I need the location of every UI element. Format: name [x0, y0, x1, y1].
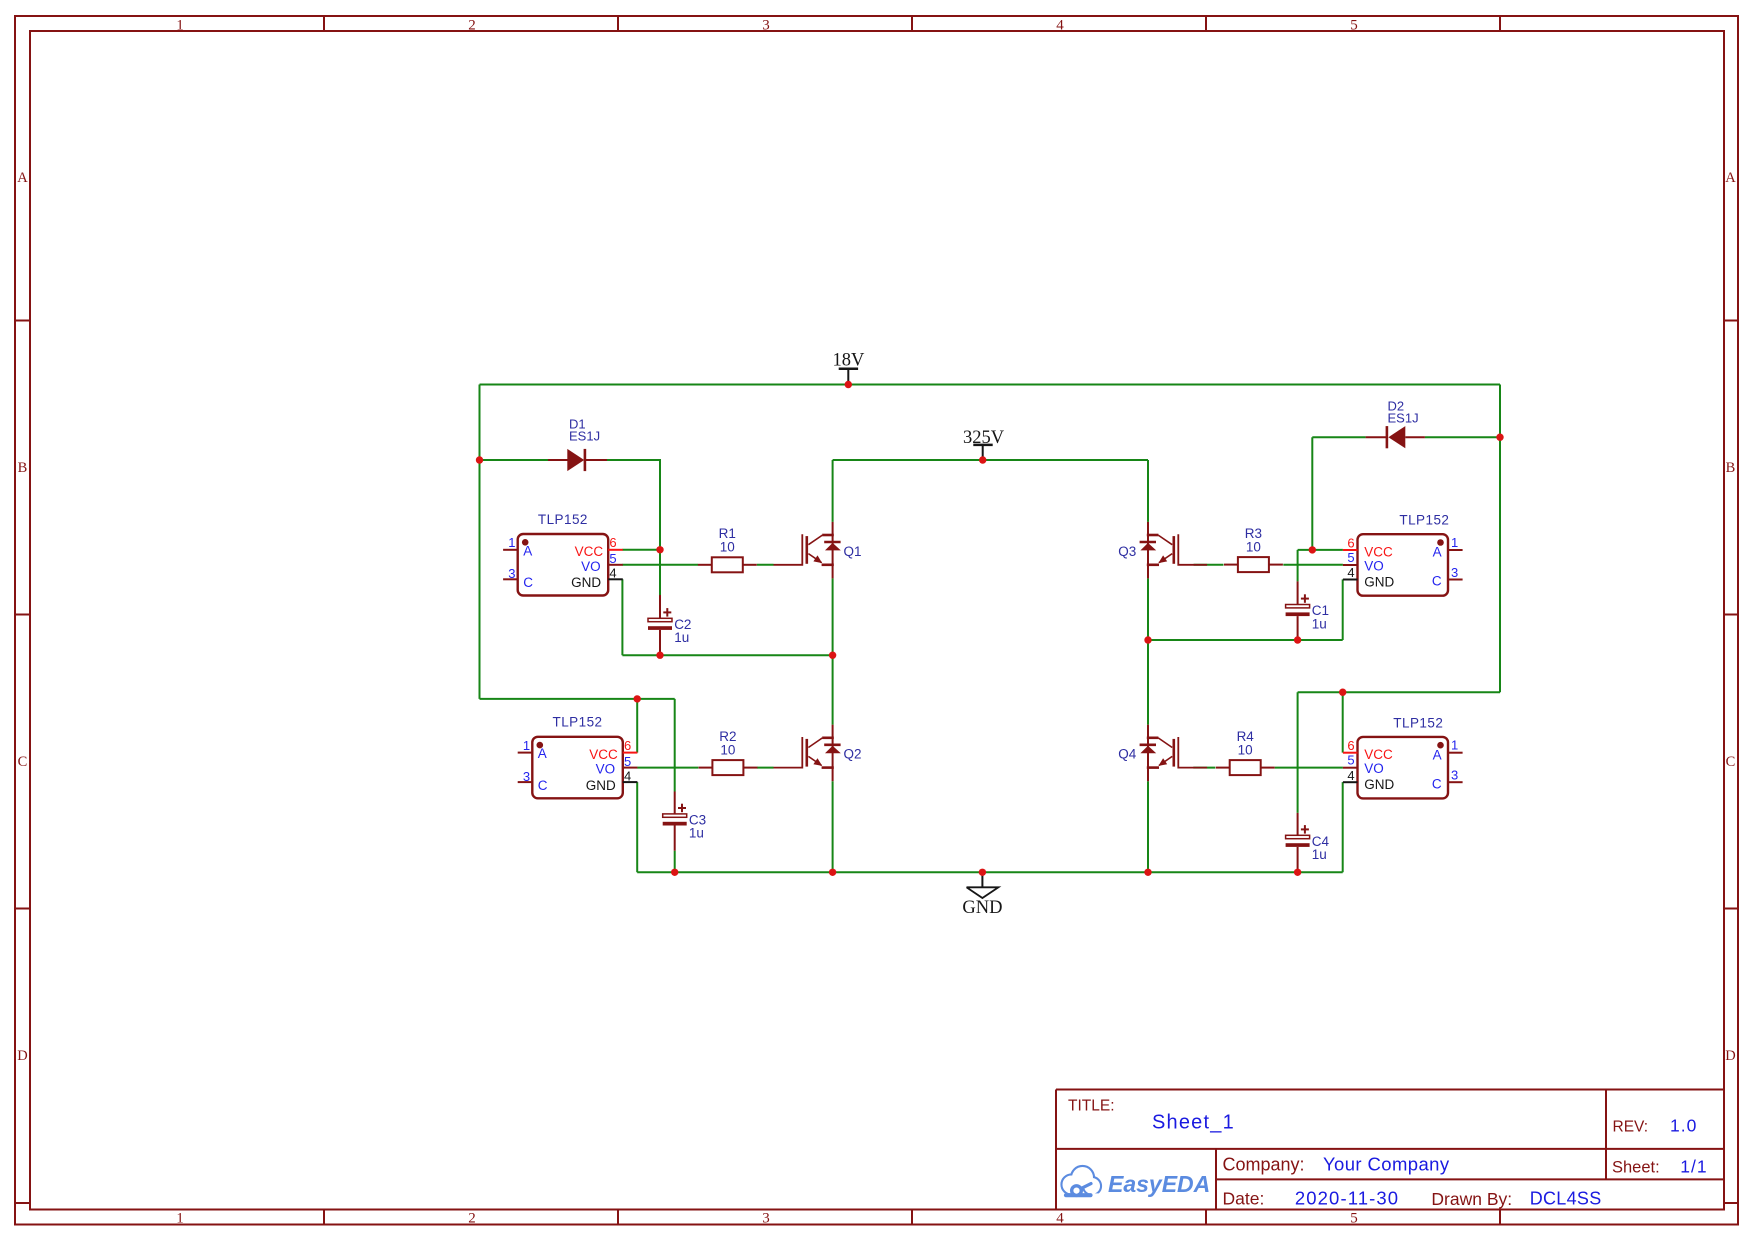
- svg-text:A: A: [1725, 170, 1736, 186]
- power flag 18V: [832, 350, 865, 384]
- svg-text:GND: GND: [962, 898, 1002, 918]
- svg-text:TITLE:: TITLE:: [1068, 1098, 1115, 1115]
- svg-text:TLP152: TLP152: [1399, 513, 1449, 528]
- svg-text:1u: 1u: [689, 826, 704, 841]
- svg-text:1u: 1u: [1312, 847, 1327, 862]
- wire GND4 pin4 down: [1342, 782, 1344, 872]
- svg-text:Q1: Q1: [844, 544, 862, 559]
- ground symbol GND: [962, 872, 1002, 918]
- svg-text:1: 1: [523, 738, 530, 753]
- svg-text:10: 10: [1246, 539, 1261, 554]
- wire D1 anode: [480, 459, 549, 461]
- svg-text:2: 2: [468, 1210, 476, 1226]
- junction node 5: [656, 652, 663, 659]
- svg-text:3: 3: [1451, 768, 1458, 783]
- svg-text:5: 5: [624, 754, 631, 769]
- svg-text:VCC: VCC: [589, 747, 618, 762]
- svg-text:C: C: [523, 575, 533, 590]
- svg-text:C: C: [18, 754, 28, 770]
- wire emitter3 return row: [1148, 639, 1343, 641]
- junction node 9: [829, 869, 836, 876]
- wire D2 cathode down to VCC3: [1311, 437, 1313, 550]
- wire VCC3 to C1 plus: [1297, 550, 1299, 582]
- svg-text:4: 4: [609, 566, 616, 581]
- svg-text:Company:: Company:: [1223, 1154, 1305, 1174]
- wire 18V top rail: [480, 384, 1501, 386]
- resistor R3 10: [1224, 526, 1283, 572]
- wire branch to VCC2 pin6: [636, 699, 638, 753]
- svg-text:6: 6: [1347, 535, 1354, 550]
- svg-text:A: A: [538, 746, 547, 761]
- svg-text:1: 1: [1451, 535, 1458, 550]
- svg-text:3: 3: [762, 1210, 770, 1226]
- svg-text:VCC: VCC: [575, 544, 604, 559]
- svg-text:A: A: [523, 543, 532, 558]
- resistor R4 10: [1216, 729, 1275, 775]
- svg-text:Sheet:: Sheet:: [1612, 1158, 1660, 1176]
- wire GND2 pin4 down: [636, 782, 638, 872]
- junction node 17: [1339, 689, 1346, 696]
- svg-text:2020-11-30: 2020-11-30: [1295, 1187, 1399, 1208]
- svg-text:VO: VO: [1364, 558, 1384, 573]
- svg-text:1: 1: [176, 17, 184, 33]
- svg-text:GND: GND: [1364, 777, 1394, 792]
- svg-text:4: 4: [1347, 768, 1354, 783]
- svg-text:C: C: [1432, 574, 1442, 589]
- svg-text:Q4: Q4: [1118, 747, 1137, 762]
- junction node 10: [979, 869, 986, 876]
- svg-text:Drawn By:: Drawn By:: [1431, 1189, 1512, 1209]
- svg-text:TLP152: TLP152: [1393, 715, 1443, 730]
- wire emitter1 return row: [622, 654, 832, 656]
- svg-text:4: 4: [1056, 17, 1064, 33]
- svg-text:Q3: Q3: [1118, 544, 1136, 559]
- svg-text:3: 3: [508, 566, 515, 581]
- svg-text:2: 2: [468, 17, 476, 33]
- wire C3 minus to GND rail: [674, 851, 676, 873]
- svg-text:Q2: Q2: [844, 747, 862, 762]
- wire D2 anode row: [1425, 436, 1500, 438]
- svg-text:3: 3: [762, 17, 770, 33]
- svg-text:4: 4: [624, 768, 631, 783]
- junction node 3: [979, 456, 986, 463]
- wire D1 cathode to VCC1 node: [607, 460, 660, 595]
- junction node 7: [634, 695, 641, 702]
- capacitor C1 1u: [1286, 581, 1329, 640]
- svg-text:5: 5: [1350, 17, 1358, 33]
- wire Q3 emitter node: [1147, 578, 1149, 640]
- wire VO2 to R2: [637, 767, 698, 769]
- svg-text:Your Company: Your Company: [1323, 1153, 1450, 1174]
- wire VCC3 node row: [1298, 549, 1343, 551]
- svg-text:1u: 1u: [674, 630, 689, 645]
- svg-text:10: 10: [1238, 742, 1253, 757]
- wire Q2 emitter to GND rail: [832, 781, 834, 872]
- wire D2 cathode row: [1312, 436, 1365, 438]
- wire GND1 pin4 down: [621, 579, 623, 655]
- svg-text:1/1: 1/1: [1680, 1156, 1707, 1176]
- svg-text:D: D: [1725, 1048, 1735, 1064]
- svg-text:ES1J: ES1J: [1388, 411, 1419, 426]
- title block: [1056, 1090, 1724, 1210]
- wire branch to C3 plus: [674, 699, 676, 792]
- wire 325V to Q1 collector: [832, 460, 834, 522]
- diode D2 ES1J: [1366, 399, 1425, 449]
- junction node 4: [656, 546, 663, 553]
- svg-text:5: 5: [609, 551, 616, 566]
- junction node 16: [1496, 434, 1503, 441]
- svg-text:5: 5: [1350, 1210, 1358, 1226]
- svg-text:A: A: [1433, 747, 1442, 762]
- junction node 8: [671, 869, 678, 876]
- svg-text:VO: VO: [596, 762, 616, 777]
- svg-text:B: B: [18, 460, 28, 476]
- svg-text:10: 10: [720, 742, 735, 757]
- svg-text:C: C: [1726, 754, 1736, 770]
- junction node 6: [829, 652, 836, 659]
- EasyEDA logo: [1058, 1167, 1210, 1201]
- svg-text:6: 6: [609, 535, 616, 550]
- svg-text:1.0: 1.0: [1670, 1116, 1697, 1136]
- junction node 1: [476, 456, 483, 463]
- svg-text:C: C: [538, 778, 548, 793]
- wire 18V lower branch: [480, 698, 675, 700]
- wire Q3 gate to R3: [1194, 564, 1224, 566]
- wire Q1 emitter to Q2 collector: [832, 578, 834, 724]
- wire Q3 emitter to Q4 collector: [1147, 640, 1149, 725]
- wire Q4 emitter to GND rail: [1147, 781, 1149, 872]
- wire VCC1 pin6: [622, 549, 660, 551]
- svg-text:REV:: REV:: [1613, 1119, 1649, 1136]
- wire 18V left vertical: [479, 385, 481, 699]
- svg-text:VCC: VCC: [1364, 747, 1393, 762]
- op-amp U4 TLP152 optocoupler: [1343, 715, 1463, 798]
- svg-text:18V: 18V: [832, 350, 865, 370]
- wire VO1 to R1: [622, 564, 698, 566]
- wire R2 to Q2 gate: [757, 767, 774, 769]
- wire R1 to Q1 gate: [757, 564, 774, 566]
- svg-text:VCC: VCC: [1364, 544, 1393, 559]
- svg-text:GND: GND: [1364, 574, 1394, 589]
- svg-text:C: C: [1432, 776, 1442, 791]
- capacitor C2 1u: [648, 595, 691, 655]
- op-amp U1 TLP152 optocoupler: [503, 512, 623, 596]
- svg-text:DCL4SS: DCL4SS: [1530, 1188, 1602, 1208]
- svg-text:10: 10: [720, 540, 735, 555]
- svg-text:5: 5: [1347, 753, 1354, 768]
- wire bootstrap to C4 plus: [1297, 692, 1299, 813]
- svg-text:6: 6: [1347, 738, 1354, 753]
- svg-text:A: A: [17, 170, 28, 186]
- transistor Q2 IGBT: [774, 725, 862, 782]
- svg-text:6: 6: [624, 738, 631, 753]
- svg-text:D: D: [17, 1048, 27, 1064]
- resistor R1 10: [698, 526, 757, 572]
- svg-text:A: A: [1433, 545, 1442, 560]
- junction node 14: [1294, 636, 1301, 643]
- wire 325V rail: [833, 459, 1148, 461]
- wire GND3 pin4 down: [1342, 579, 1344, 640]
- wire 18V right vertical: [1499, 385, 1501, 693]
- svg-text:Sheet_1: Sheet_1: [1152, 1111, 1235, 1133]
- svg-text:325V: 325V: [963, 428, 1005, 448]
- transistor Q1 IGBT: [774, 522, 862, 579]
- svg-text:4: 4: [1056, 1210, 1064, 1226]
- power flag 325V: [963, 428, 1005, 460]
- svg-text:TLP152: TLP152: [538, 512, 588, 527]
- svg-text:GND: GND: [571, 575, 601, 590]
- junction node 11: [1144, 869, 1151, 876]
- wire Q4 gate to R4: [1193, 767, 1215, 769]
- svg-text:EasyEDA: EasyEDA: [1108, 1171, 1210, 1197]
- svg-text:4: 4: [1347, 565, 1354, 580]
- svg-text:1: 1: [508, 535, 515, 550]
- wire branch to VCC4 pin6: [1342, 692, 1344, 752]
- junction node 13: [1144, 636, 1151, 643]
- svg-text:ES1J: ES1J: [569, 429, 600, 444]
- transistor Q3 IGBT: [1118, 522, 1207, 579]
- junction node 2: [845, 381, 852, 388]
- svg-text:1: 1: [176, 1210, 184, 1226]
- wire 325V to Q3 collector: [1147, 460, 1149, 522]
- transistor Q4 IGBT: [1118, 725, 1207, 782]
- svg-text:3: 3: [1451, 565, 1458, 580]
- junction node 15: [1309, 546, 1316, 553]
- svg-text:Date:: Date:: [1223, 1188, 1265, 1208]
- wire R4 to VO4: [1275, 767, 1343, 769]
- op-amp U3 TLP152 optocoupler: [1343, 513, 1463, 596]
- resistor R2 10: [699, 729, 758, 775]
- svg-text:1: 1: [1451, 738, 1458, 753]
- svg-text:3: 3: [523, 769, 530, 784]
- svg-text:GND: GND: [586, 778, 616, 793]
- capacitor C3 1u: [663, 792, 706, 851]
- svg-text:B: B: [1726, 460, 1736, 476]
- svg-text:VO: VO: [1364, 761, 1384, 776]
- wire bootstrap row: [1298, 691, 1500, 693]
- wire GND rail: [637, 871, 1342, 873]
- svg-text:1u: 1u: [1312, 616, 1327, 631]
- svg-text:VO: VO: [581, 559, 601, 574]
- junction node 12: [1294, 869, 1301, 876]
- diode D1 ES1J: [548, 417, 607, 471]
- svg-text:5: 5: [1347, 550, 1354, 565]
- op-amp U2 TLP152 optocoupler: [518, 715, 638, 799]
- svg-text:TLP152: TLP152: [553, 715, 603, 730]
- wire R3 to VO3: [1283, 564, 1343, 566]
- capacitor C4 1u: [1286, 813, 1330, 872]
